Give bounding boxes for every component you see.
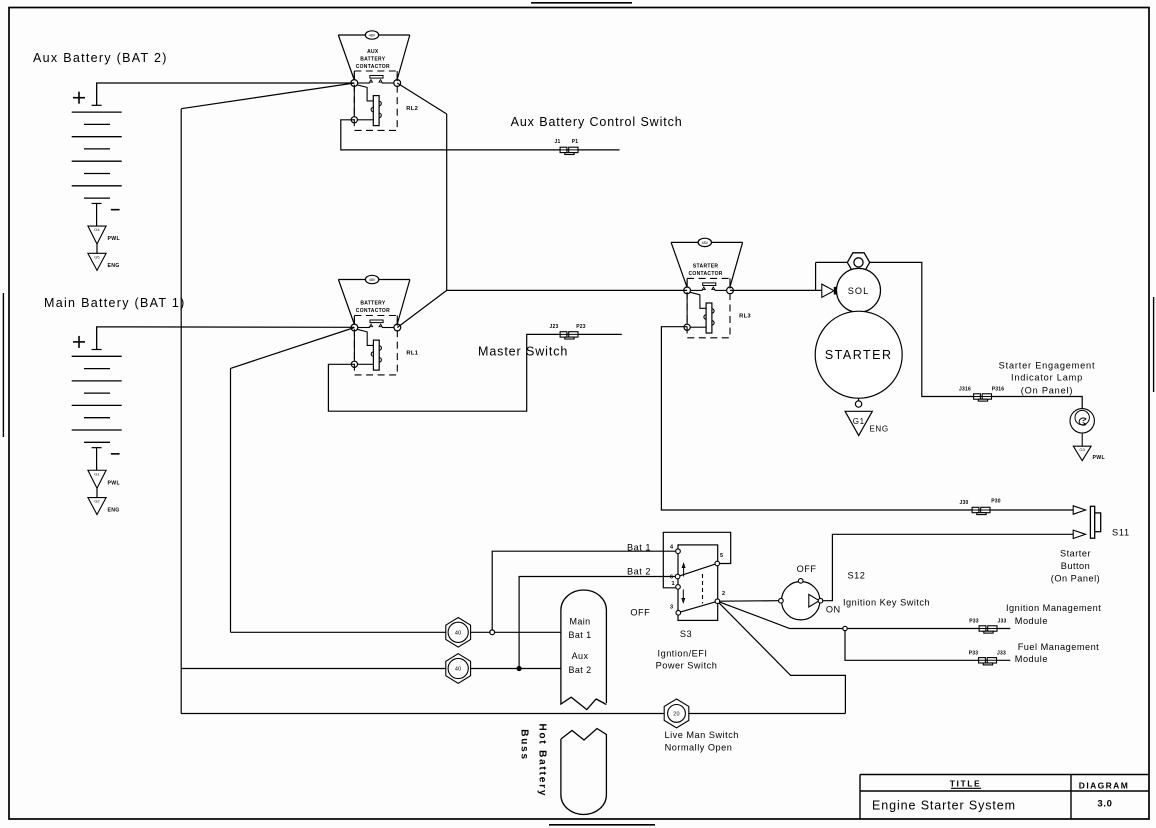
relay RL1 contact points <box>370 324 373 327</box>
svg-text:G3: G3 <box>1079 447 1085 452</box>
switch S3 body <box>678 545 718 621</box>
svg-text:J33: J33 <box>998 619 1007 625</box>
wire: aux feed to live man switch and S3 pin 2 net <box>181 713 845 715</box>
svg-text:DIAGRAM: DIAGRAM <box>1079 781 1129 791</box>
svg-text:PWL: PWL <box>1093 455 1106 461</box>
wire: vertical x=447 <box>446 114 448 290</box>
svg-text:S11: S11 <box>1112 528 1130 538</box>
title block frame <box>860 774 1149 776</box>
starter ground terminal <box>858 398 860 401</box>
svg-text:STARTER: STARTER <box>825 348 893 362</box>
relay RL1 dashed enclosure <box>354 316 397 375</box>
battery Main Battery (BAT 1) top terminal stub <box>96 327 98 349</box>
contactor Battery Contactor top oval terminal <box>365 275 378 283</box>
relay RL3 right contact terminal <box>727 287 734 294</box>
wire: branch to fuel management module <box>845 631 1010 661</box>
svg-text:Fuel Management: Fuel Management <box>1018 642 1100 652</box>
svg-text:J30: J30 <box>960 500 969 506</box>
battery Main Battery (BAT 1) plates <box>72 355 122 357</box>
svg-text:Ignition Key Switch: Ignition Key Switch <box>843 598 930 608</box>
hot battery buss lower section <box>561 729 607 815</box>
svg-text:RL2: RL2 <box>406 106 418 112</box>
top center tick mark <box>531 2 632 4</box>
fuse 40 (main) <box>446 618 471 648</box>
svg-text:3: 3 <box>670 605 673 611</box>
svg-text:ENG: ENG <box>870 425 889 434</box>
junction <box>843 626 847 630</box>
connector J1/P1 <box>560 147 567 152</box>
wire: RL1 coil to master switch <box>328 334 621 411</box>
S3 pin 5 <box>715 561 720 566</box>
wire: S3 pin 2 to management modules <box>719 602 1010 629</box>
indicator lamp <box>1070 409 1094 433</box>
connector J30/P30 <box>972 507 979 512</box>
hot battery buss upper section <box>561 590 607 710</box>
wire: Bat 1 feed to S3 pin 4 <box>492 551 676 632</box>
wire: S3 pin 2 to ignition key switch <box>720 600 779 603</box>
junction (Bat 1 tap) <box>490 630 495 635</box>
svg-text:J316: J316 <box>959 387 971 393</box>
relay RL2 coil <box>373 96 379 126</box>
relay RL3 coil <box>706 303 712 333</box>
wire: S3 pin 2 to live man switch <box>719 603 845 714</box>
wire: solenoid stud to indicator lamp <box>869 262 1082 408</box>
solenoid wire arrow terminal <box>822 284 834 297</box>
svg-text:40: 40 <box>455 631 462 637</box>
svg-text:RL3: RL3 <box>739 313 751 319</box>
wire: long vertical aux feed x=181 <box>180 109 182 714</box>
battery Main Battery (BAT 1) plus sign <box>73 341 85 343</box>
svg-text:Main Battery (BAT 1): Main Battery (BAT 1) <box>44 296 186 310</box>
ground G1 ENG (starter) <box>845 411 872 435</box>
ground ENG (Aux Battery (BAT 2)) <box>88 253 106 270</box>
wire between grounds (Aux Battery (BAT 2)) <box>96 244 98 253</box>
relay RL2 coil feed wire <box>357 85 373 101</box>
svg-text:OFF: OFF <box>630 607 650 617</box>
starter button S11 <box>1090 506 1094 538</box>
svg-text:Indicator Lamp: Indicator Lamp <box>1011 373 1083 383</box>
S12 wiper arrow <box>809 594 819 607</box>
svg-text:Main: Main <box>569 617 590 627</box>
right margin mark <box>1153 297 1155 392</box>
wire: RL3 coil to starter button <box>661 327 1073 510</box>
svg-text:CONTACTOR: CONTACTOR <box>689 271 723 277</box>
svg-text:5: 5 <box>720 553 723 559</box>
svg-text:G5: G5 <box>94 254 100 259</box>
svg-text:PWL: PWL <box>108 236 121 242</box>
relay RL1 coil terminal <box>351 361 357 367</box>
wire: vertical main feed x=230 <box>230 368 232 632</box>
junction (Bat 2 tap) <box>517 667 521 671</box>
solenoid body SOL <box>837 268 881 312</box>
wire: aux battery + to RL2 left terminal <box>97 83 355 105</box>
wire: Bat 2 feed to S3 pin 6 <box>519 577 675 669</box>
svg-text:ON: ON <box>826 605 841 615</box>
ground PWL (Aux Battery (BAT 2)) <box>88 226 106 244</box>
relay RL1 contact leads <box>358 327 370 329</box>
svg-text:(On Panel): (On Panel) <box>1051 574 1100 584</box>
S3 gang link (dashed) <box>702 574 704 604</box>
svg-text:Button: Button <box>1061 561 1091 571</box>
svg-text:PWL: PWL <box>108 480 121 486</box>
switch S3 pin1-pin5 outer jumper <box>663 532 730 588</box>
S12 right contact <box>818 598 823 603</box>
svg-text:P33: P33 <box>969 650 979 656</box>
S3 pin 3 <box>676 610 681 615</box>
relay RL3 contact bar <box>703 283 716 286</box>
svg-text:Power Switch: Power Switch <box>656 660 718 670</box>
switch S12 body circle <box>782 582 820 620</box>
svg-text:Module: Module <box>1015 654 1048 664</box>
fuse 40 (aux) <box>446 654 471 684</box>
svg-text:BATTERY: BATTERY <box>360 301 386 307</box>
bottom center tick mark <box>549 824 655 826</box>
battery Aux Battery (BAT 2) minus sign <box>111 209 120 211</box>
relay RL3 coil feed wire <box>690 292 706 308</box>
relay RL2 dashed enclosure <box>354 71 397 130</box>
svg-text:Starter Engagement: Starter Engagement <box>999 360 1096 370</box>
wire: riser to solenoid stud <box>815 262 817 290</box>
wire between grounds (Main Battery (BAT 1)) <box>96 488 98 497</box>
relay RL2 right contact terminal <box>394 80 401 87</box>
S3 wiper 3 to 2 <box>680 602 715 612</box>
svg-text:20: 20 <box>673 712 680 718</box>
relay RL1 coil <box>373 340 379 370</box>
svg-text:Aux Battery Control Switch: Aux Battery Control Switch <box>511 115 683 129</box>
relay RL3 contact leads <box>690 289 702 291</box>
S3 pin 2 <box>715 599 720 604</box>
svg-text:CONTACTOR: CONTACTOR <box>356 64 390 70</box>
wire: fuse feed Aux Bat 2 <box>181 668 561 670</box>
svg-text:Igntion/EFI: Igntion/EFI <box>658 649 708 659</box>
svg-text:Buss: Buss <box>519 729 530 761</box>
relay RL2 terminal stubs <box>353 71 355 80</box>
relay RL1 terminal stubs <box>353 316 355 325</box>
S3 wiper arrow up <box>683 566 685 577</box>
svg-text:Starter: Starter <box>1060 549 1091 559</box>
svg-text:Aux: Aux <box>572 651 589 661</box>
ground ENG (Main Battery (BAT 1)) <box>88 498 106 515</box>
svg-text:Live Man Switch: Live Man Switch <box>665 730 739 740</box>
svg-text:Master Switch: Master Switch <box>478 344 568 358</box>
connector P33/J33 (ignition module) <box>979 626 986 631</box>
svg-text:Hot Battery: Hot Battery <box>537 724 548 798</box>
svg-text:2: 2 <box>722 591 725 597</box>
starter button S11 wire arrows <box>1073 506 1085 514</box>
svg-text:P30: P30 <box>991 499 1001 505</box>
svg-text:J23: J23 <box>550 324 559 330</box>
svg-text:P1: P1 <box>572 139 579 145</box>
svg-text:1: 1 <box>671 581 674 587</box>
contactor Battery Contactor trapezoid body <box>338 279 410 281</box>
svg-text:Bat 1: Bat 1 <box>568 630 591 640</box>
S3 lower arrow down <box>682 590 684 601</box>
svg-text:TITLE: TITLE <box>950 779 982 789</box>
S3 wiper 6 to 5 <box>680 564 716 576</box>
wire: RL2 right terminal diagonal to x=447 <box>397 83 447 114</box>
starter motor <box>815 311 902 398</box>
svg-text:P316: P316 <box>992 387 1004 393</box>
contactor Aux Battery Contactor top oval terminal <box>365 31 378 39</box>
svg-text:Module: Module <box>1015 616 1048 626</box>
svg-text:40: 40 <box>455 667 462 673</box>
svg-text:Ignition Management: Ignition Management <box>1006 603 1101 613</box>
svg-text:G2: G2 <box>94 499 100 504</box>
svg-text:S12: S12 <box>848 571 866 581</box>
relay RL2 contact bar <box>370 76 383 79</box>
svg-text:RL1: RL1 <box>406 351 418 357</box>
relay RL3 left contact terminal <box>684 287 691 294</box>
wire: node at (181,109) diagonal up to RL2 left terminal <box>181 83 354 109</box>
svg-text:P23: P23 <box>576 324 586 330</box>
svg-text:Bat 2: Bat 2 <box>568 665 591 675</box>
svg-text:STARTER: STARTER <box>693 263 718 269</box>
svg-text:J33: J33 <box>997 650 1006 656</box>
wire: RL2 coil to control switch <box>341 120 620 150</box>
svg-text:BATTERY: BATTERY <box>360 57 386 63</box>
svg-text:ENG: ENG <box>108 507 120 513</box>
relay RL3 coil terminal <box>684 324 690 330</box>
svg-text:SOL: SOL <box>848 286 869 296</box>
battery Aux Battery (BAT 2) plus sign <box>73 97 85 99</box>
relay RL1 coil feed wire <box>357 329 373 345</box>
battery Aux Battery (BAT 2) top terminal stub <box>96 83 98 105</box>
svg-text:Normally Open: Normally Open <box>665 742 733 752</box>
svg-text:S3: S3 <box>680 629 692 639</box>
contactor Starter Contactor top oval terminal <box>698 238 711 246</box>
relay RL2 contact leads <box>358 82 370 84</box>
relay RL3 dashed enclosure <box>687 278 730 337</box>
wire: ignition key switch to starter button <box>823 534 1073 600</box>
svg-text:3.0: 3.0 <box>1097 799 1112 810</box>
wire: RL3 right terminal to solenoid terminal <box>730 289 822 291</box>
battery Aux Battery (BAT 2) bottom terminal stub <box>92 202 102 204</box>
battery Aux Battery (BAT 2) plates <box>72 111 122 113</box>
svg-text:G1: G1 <box>94 471 100 476</box>
svg-text:ENG: ENG <box>108 263 120 269</box>
relay RL2 left contact terminal <box>351 80 358 87</box>
solenoid stud hexagon <box>847 253 869 272</box>
svg-text:(On Panel): (On Panel) <box>1021 385 1073 395</box>
svg-text:Bat 2: Bat 2 <box>627 566 651 576</box>
ground PWL (lamp) <box>1073 446 1091 461</box>
S12 top contact <box>798 579 803 584</box>
relay RL1 right contact terminal <box>394 324 401 331</box>
left margin mark <box>2 293 4 437</box>
svg-text:Aux Battery (BAT 2): Aux Battery (BAT 2) <box>33 51 168 65</box>
S3 pin 4 <box>676 549 681 554</box>
connector J316/P316 <box>974 394 981 399</box>
battery Main Battery (BAT 1) minus sign <box>111 453 120 455</box>
svg-text:48V: 48V <box>369 278 376 282</box>
relay RL3 terminal stubs <box>686 278 688 287</box>
wire: horizontal to RL3 left terminal <box>447 289 687 291</box>
svg-text:P33: P33 <box>969 619 979 625</box>
svg-text:G4: G4 <box>94 227 100 232</box>
relay RL2 contact points <box>370 80 373 83</box>
svg-text:OFF: OFF <box>797 564 817 574</box>
svg-text:G1: G1 <box>853 417 865 426</box>
svg-text:J1: J1 <box>555 139 561 145</box>
svg-text:48V: 48V <box>702 241 709 245</box>
wire: RL1 left terminal diagonal down to x=230 vertical <box>231 328 355 369</box>
battery Main Battery (BAT 1) bottom terminal stub <box>92 447 102 449</box>
relay RL1 left contact terminal <box>351 324 358 331</box>
S3 pin 6 <box>675 574 680 579</box>
S3 pin 1 <box>676 585 681 590</box>
svg-text:CONTACTOR: CONTACTOR <box>356 308 390 314</box>
wire: fuse feed Main Bat 1 <box>231 631 561 633</box>
connector J23/P23 <box>560 332 567 337</box>
svg-text:48V: 48V <box>369 34 376 38</box>
wire: main battery + to RL1 left terminal <box>97 327 355 350</box>
contactor Starter Contactor trapezoid body <box>671 241 743 243</box>
connector P33/J33 (fuel module) <box>979 658 986 663</box>
S12 left contact <box>779 598 784 603</box>
relay RL3 contact points <box>702 287 705 290</box>
ground PWL (Main Battery (BAT 1)) <box>88 470 106 488</box>
live man switch hexagon 20 <box>664 699 689 728</box>
wire: lamp to ground <box>1081 433 1083 446</box>
svg-text:AUX: AUX <box>367 49 379 55</box>
relay RL2 coil terminal <box>351 117 357 123</box>
svg-text:Engine Starter System: Engine Starter System <box>872 799 1016 813</box>
relay RL1 contact bar <box>370 320 383 323</box>
wire: diagonal down to RL1 right terminal <box>397 290 446 327</box>
contactor Aux Battery Contactor trapezoid body <box>338 34 410 36</box>
svg-text:6: 6 <box>670 575 673 581</box>
